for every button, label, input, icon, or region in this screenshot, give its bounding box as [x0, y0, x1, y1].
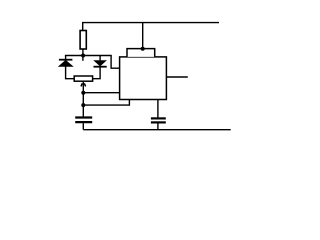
junction wiper node	[81, 91, 85, 95]
diode D1 cathode bar	[59, 59, 73, 61]
diode D2 triangle	[93, 60, 107, 66]
wire wiper node to IC left pin	[83, 92, 119, 94]
junction feedback node	[81, 103, 85, 107]
wire IC bottom to capacitor C2	[157, 100, 159, 118]
junction oscillator top	[141, 47, 145, 51]
wire D2 cathode to pot right	[93, 67, 101, 79]
potentiometer RV1 body	[74, 76, 92, 81]
diode D1 cathode stub	[65, 56, 67, 60]
wiper arrow barbs	[81, 83, 86, 86]
capacitor C2 top plate	[151, 117, 166, 119]
capacitor C2 bottom plate	[151, 121, 166, 123]
diode D2 anode stub	[99, 56, 101, 61]
wire C2 bottom to ground bus	[157, 124, 159, 130]
IC U1 body	[120, 57, 167, 100]
oscillator box X1 on top of IC	[127, 49, 155, 57]
wire top bus to oscillator box	[142, 23, 144, 49]
wire C1 bottom to ground bus	[82, 123, 84, 130]
potentiometer wiper arrow shaft	[82, 82, 84, 93]
diode D2 cathode bar	[94, 66, 107, 68]
wire resistor bottom to node A	[82, 49, 84, 61]
junction node A	[81, 54, 85, 58]
wire wiper column down to capacitor C1	[82, 93, 84, 117]
wire top supply bus	[83, 23, 219, 31]
capacitor C1 bottom plate	[75, 121, 92, 123]
capacitor C1 top plate	[75, 116, 92, 118]
diode D1 triangle	[58, 60, 74, 67]
resistor R1	[80, 31, 86, 50]
wire D1 anode to pot left	[66, 66, 75, 78]
node A horizontal wire with jog to IC left pin	[65, 56, 120, 69]
IC right output pin	[166, 76, 187, 78]
wire feedback node to IC bottom pin	[83, 100, 129, 106]
ground bottom bus	[83, 129, 230, 131]
